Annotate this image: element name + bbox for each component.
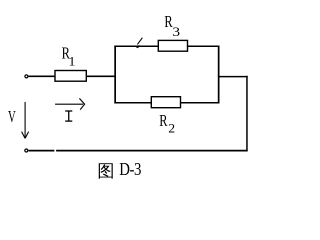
label R2 [159,112,175,135]
wire: bottom return (left part, after small gap) [28,150,54,152]
label I (drawn serif I) [65,111,72,121]
wire: right side drop [246,76,248,152]
wire: output from right junction [219,76,248,78]
wire: bottom branch right segment [180,102,219,104]
wire: R1 to left junction [86,75,116,77]
svg-text:R: R [159,112,167,130]
wire: top branch left segment [114,45,158,47]
svg-text:V: V [8,108,16,127]
voltage arrow V (downward) [22,102,29,138]
current arrow I (rightward) [55,98,85,109]
svg-text:D-3: D-3 [119,159,141,180]
resistor R1 [55,71,86,82]
svg-text:2: 2 [168,121,175,135]
label R1 [62,45,76,68]
wire: input to R1 [29,75,56,77]
label R3 [164,13,180,39]
resistor R2 [151,97,180,108]
terminal: bottom-left [25,149,28,152]
variable-resistor wiper arrow (R3 branch) [136,38,143,49]
svg-text:1: 1 [69,54,76,68]
wire: top branch right segment [188,45,220,47]
wire: bottom return (right part) [56,150,248,152]
caption glyph 图 [99,163,113,178]
resistor R3 [158,40,187,51]
terminal: top-left input [25,75,28,78]
wire: bottom branch left segment [114,102,151,104]
svg-text:3: 3 [172,26,180,39]
wire: left branch vertical [114,46,116,104]
wire: right branch vertical [218,46,220,104]
